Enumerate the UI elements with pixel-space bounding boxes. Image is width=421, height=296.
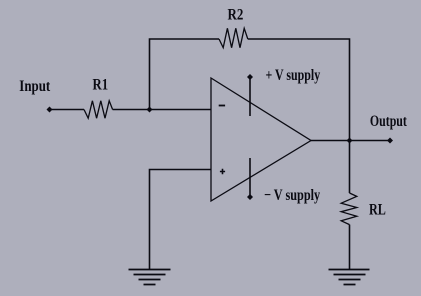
svg-text:R1: R1 <box>93 76 109 94</box>
svg-text:− V supply: − V supply <box>264 187 320 205</box>
svg-text:RL: RL <box>369 201 386 219</box>
svg-text:Output: Output <box>370 112 407 130</box>
svg-text:R2: R2 <box>228 6 244 24</box>
svg-text:+ V supply: + V supply <box>266 66 321 84</box>
svg-text:Input: Input <box>19 78 50 96</box>
